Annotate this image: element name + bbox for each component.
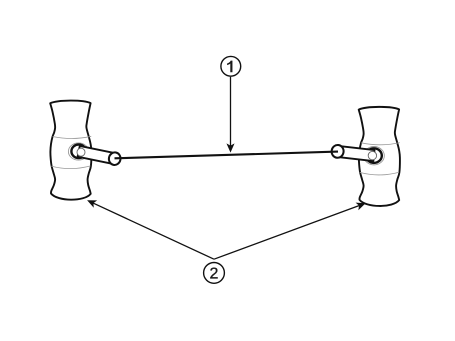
callout 2 left leader line — [93, 203, 214, 259]
right stub end cap — [331, 144, 344, 158]
callout 2 right arrowhead — [356, 199, 367, 210]
callout 1 arrowhead — [226, 143, 234, 152]
callout 2 circle — [204, 263, 225, 284]
right boss bold ring — [366, 148, 382, 163]
svg-text:2: 2 — [210, 266, 219, 283]
callout 2 right leader line — [214, 206, 359, 260]
right boss faint outer ellipse — [364, 147, 385, 165]
left bushing body — [50, 101, 91, 200]
right bushing body — [359, 107, 400, 206]
left bushing band upper faint line — [53, 136, 92, 138]
left stub butt thin circle — [77, 148, 85, 156]
wire (stabilizer cable) — [115, 152, 339, 159]
left stub cylinder — [78, 146, 118, 164]
callout 1 leader line — [230, 77, 232, 146]
left boss bold ring — [71, 145, 86, 159]
right bushing band upper faint line — [361, 143, 400, 145]
right stub butt thin circle — [368, 151, 376, 159]
callout 1 label — [227, 61, 232, 73]
right bushing band lower faint line — [360, 172, 399, 175]
right stub cylinder — [334, 146, 374, 161]
left stub end cap — [108, 151, 122, 166]
left boss faint outer ellipse — [68, 143, 88, 160]
callout 1 circle — [221, 56, 241, 76]
left bushing band lower faint line — [51, 166, 90, 169]
callout 2 left arrowhead — [85, 197, 97, 208]
